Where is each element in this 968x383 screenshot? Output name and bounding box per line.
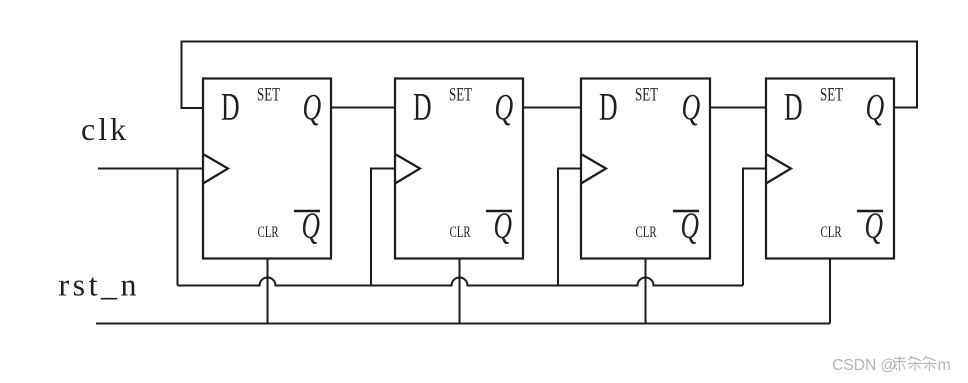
U2 Qbar overline [486, 210, 512, 212]
wire U2 CLR drop [459, 259, 461, 324]
svg-text:Q: Q [866, 87, 885, 128]
U1 clock triangle [203, 154, 228, 184]
D flip-flop U4 body [766, 79, 894, 259]
svg-text:SET: SET [257, 85, 280, 105]
svg-text:D: D [413, 86, 432, 128]
svg-text:CLR: CLR [821, 223, 842, 240]
svg-text:D: D [221, 86, 240, 128]
wire clk branch drop [177, 169, 179, 286]
svg-text:CLR: CLR [450, 223, 471, 240]
svg-text:clk: clk [81, 111, 129, 147]
svg-text:D: D [599, 86, 618, 128]
wire Q2 to D3 [523, 107, 581, 109]
watermark hanzi tiao 1 [908, 356, 922, 371]
wire clk bus with hops [178, 278, 744, 286]
wire clk riser to U2 [371, 169, 395, 286]
wire Q1 to D2 [331, 107, 395, 109]
wire U3 CLR drop [645, 259, 647, 324]
svg-text:CLR: CLR [636, 223, 657, 240]
watermark hanzi tiao 2 [923, 356, 937, 371]
svg-text:m: m [938, 357, 951, 374]
svg-text:CSDN @: CSDN @ [832, 357, 896, 374]
wire rst_n bus [96, 323, 830, 325]
svg-text:Q: Q [303, 87, 322, 128]
U4 Qbar overline [857, 210, 883, 212]
wire U1 CLR drop [267, 259, 269, 324]
U4 clock triangle [766, 154, 791, 184]
wire U4 CLR drop [829, 259, 831, 324]
wire clk riser to U3 [558, 169, 581, 286]
svg-text:CLR: CLR [258, 223, 279, 240]
svg-text:Q: Q [682, 87, 701, 128]
U2 clock triangle [395, 154, 420, 184]
wire clk riser to U4 [743, 169, 766, 286]
svg-text:SET: SET [635, 85, 658, 105]
svg-text:SET: SET [449, 85, 472, 105]
svg-text:Q: Q [495, 87, 514, 128]
wire feedback Q4 to D1 [182, 42, 918, 109]
watermark CSDN [832, 357, 951, 374]
D flip-flop U2 body [395, 79, 523, 259]
U3 Qbar overline [673, 210, 699, 212]
D flip-flop U3 body [581, 79, 710, 259]
svg-text:SET: SET [820, 85, 843, 105]
wire clk input [98, 168, 203, 170]
D flip-flop U1 body [203, 79, 331, 259]
svg-text:D: D [784, 86, 803, 128]
watermark hanzi chi [893, 357, 906, 372]
U1 Qbar overline [294, 210, 320, 212]
wire Q3 to D4 [710, 107, 766, 109]
svg-text:rst_n: rst_n [59, 267, 141, 303]
U3 clock triangle [581, 154, 606, 184]
